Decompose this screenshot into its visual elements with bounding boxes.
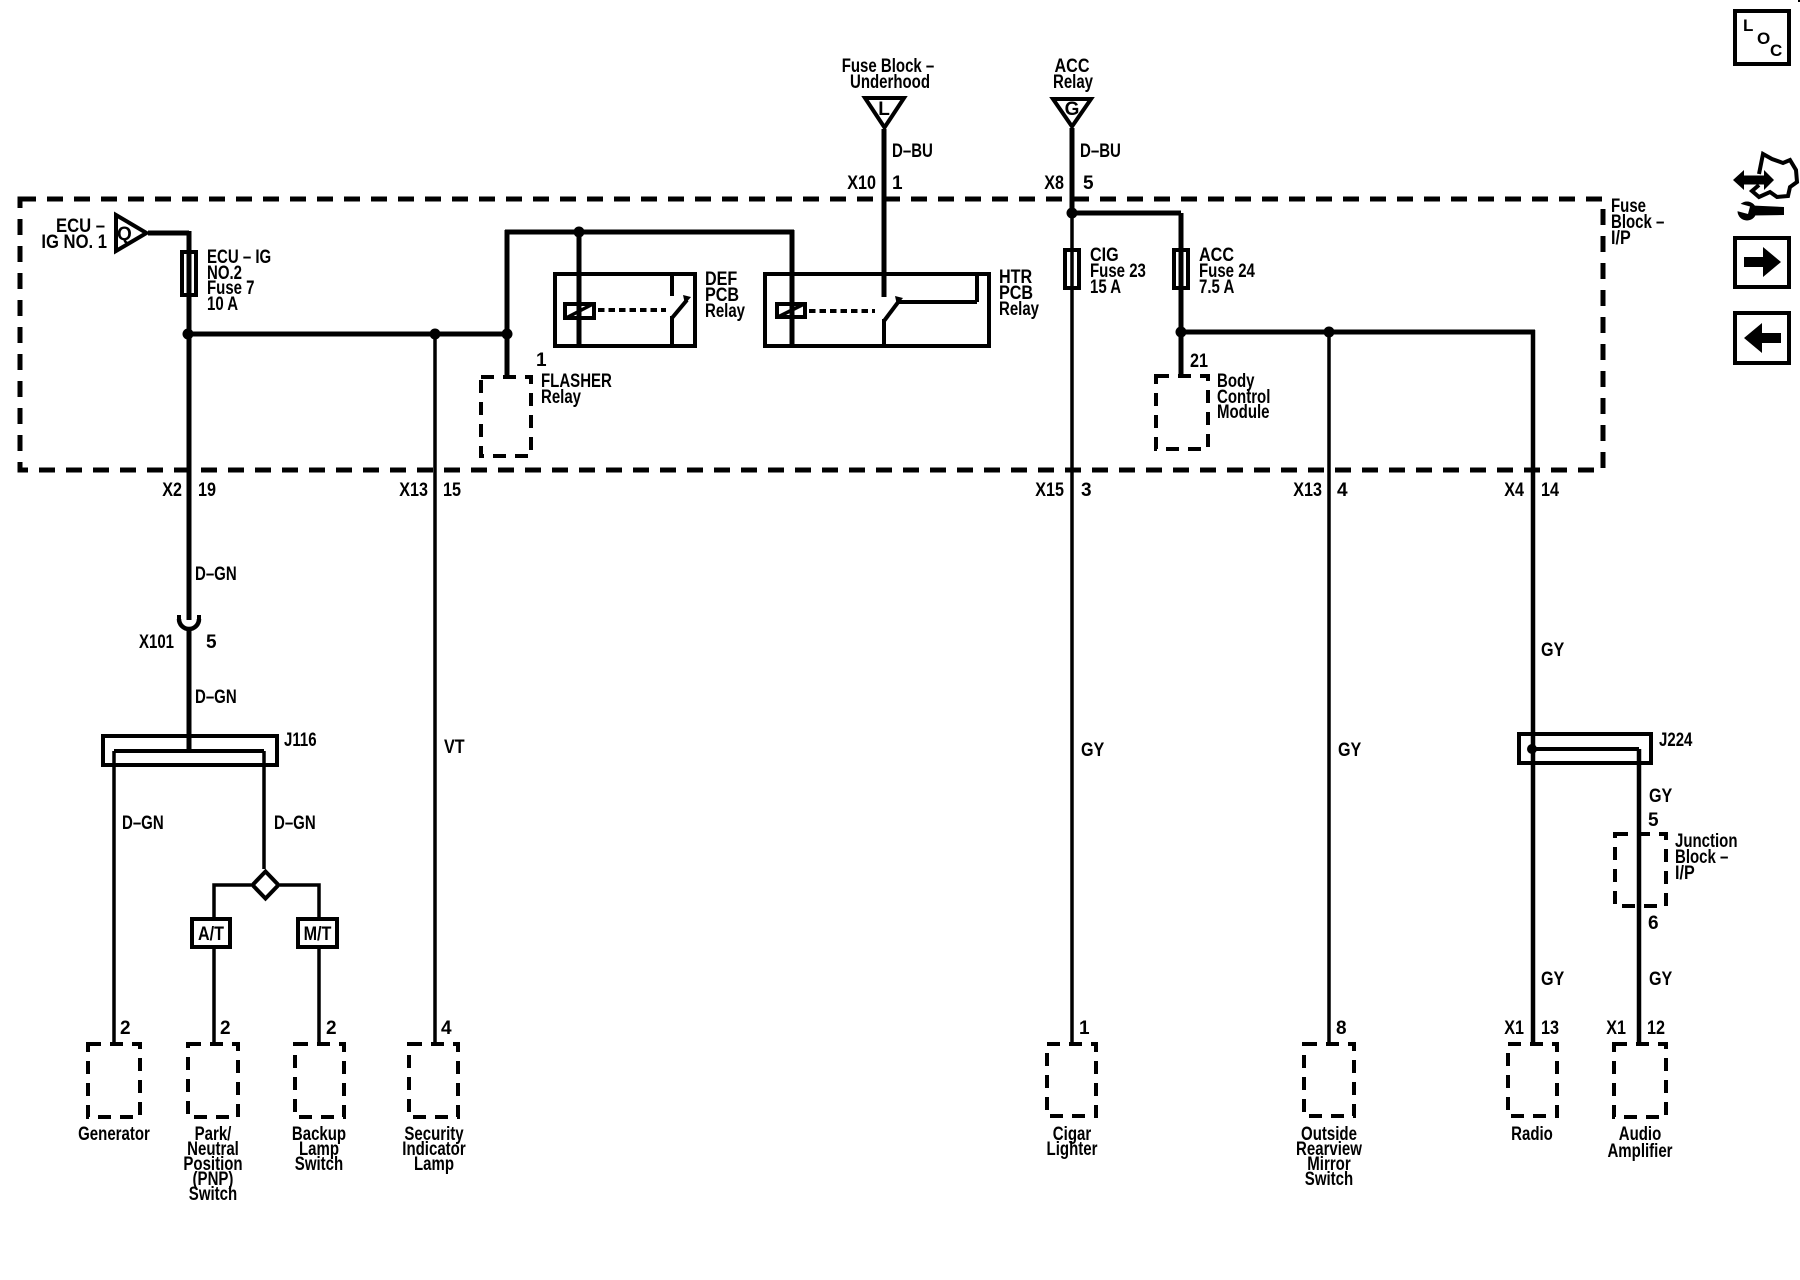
svg-text:1: 1 [536, 350, 547, 371]
svg-text:L: L [878, 99, 890, 120]
svg-text:13: 13 [1541, 1018, 1559, 1039]
wire J224 right drop [1637, 749, 1642, 1046]
svg-text:I/P: I/P [1675, 863, 1695, 884]
svg-text:GY: GY [1649, 786, 1673, 807]
fuse block I/P dashed outline [20, 199, 1603, 470]
svg-text:O: O [1757, 29, 1770, 48]
junction dot B [430, 329, 441, 340]
wire security branch [433, 334, 437, 1046]
svg-text:G: G [1065, 99, 1080, 120]
power triangle L [865, 98, 904, 128]
svg-text:A/T: A/T [198, 924, 224, 945]
wire radio branch vertical [1531, 330, 1536, 1046]
svg-text:Q: Q [117, 224, 132, 245]
svg-text:15: 15 [443, 480, 461, 501]
svg-text:Relay: Relay [541, 387, 581, 408]
HTR coil feed wire [790, 230, 795, 346]
svg-text:1: 1 [1079, 1018, 1090, 1039]
wire diamond to M/T [280, 885, 319, 917]
splice J224 bar [1532, 747, 1639, 751]
svg-text:19: 19 [198, 480, 216, 501]
svg-text:Lamp: Lamp [414, 1154, 454, 1175]
connector Audio dashed box [1614, 1044, 1666, 1117]
wire G triangle down [1070, 128, 1075, 213]
wire mirror branch [1327, 332, 1331, 1046]
junction dot H [1527, 744, 1537, 754]
svg-text:X13: X13 [399, 480, 428, 501]
power triangle ECU-IG NO.1 [116, 215, 147, 251]
wire main D-GN vertical upper [187, 231, 192, 620]
box A/T [192, 919, 230, 947]
svg-text:GY: GY [1541, 969, 1565, 990]
svg-text:Switch: Switch [189, 1184, 237, 1205]
icon LOC box [1735, 11, 1789, 64]
svg-text:10 A: 10 A [207, 294, 238, 315]
svg-text:7.5 A: 7.5 A [1199, 277, 1235, 298]
HTR relay coil [777, 304, 805, 317]
svg-text:Relay: Relay [999, 299, 1039, 320]
svg-text:Generator: Generator [78, 1124, 150, 1145]
svg-text:Amplifier: Amplifier [1607, 1141, 1673, 1162]
svg-text:4: 4 [1337, 480, 1348, 501]
svg-text:L: L [1743, 16, 1753, 35]
svg-text:5: 5 [206, 632, 217, 653]
junction dot C [502, 329, 513, 340]
connector Cigar dashed box [1047, 1044, 1096, 1116]
svg-text:X101: X101 [139, 632, 174, 653]
svg-text:12: 12 [1647, 1018, 1665, 1039]
svg-text:D–GN: D–GN [274, 813, 316, 834]
svg-text:GY: GY [1541, 640, 1565, 661]
wire ACC branch [1179, 213, 1184, 378]
wire CIG branch [1070, 213, 1074, 1046]
svg-text:14: 14 [1541, 480, 1559, 501]
junction dot A [183, 329, 194, 340]
connector Mirror dashed box [1304, 1044, 1354, 1116]
wire diamond to A/T [214, 885, 251, 917]
splice J116 box [103, 736, 277, 765]
junction dot F [1176, 327, 1187, 338]
wire A/T down [212, 947, 216, 1046]
wire horizontal y213 [1072, 211, 1181, 216]
svg-text:D–GN: D–GN [195, 564, 237, 585]
svg-text:D–BU: D–BU [892, 141, 933, 162]
wire L triangle to HTR switch [882, 129, 887, 297]
box M/T [298, 919, 337, 947]
svg-text:X2: X2 [162, 480, 182, 501]
HTR relay box [765, 274, 989, 346]
connector PNP dashed box [188, 1044, 238, 1117]
svg-text:4: 4 [441, 1018, 452, 1039]
icon forward arrow box [1735, 238, 1789, 287]
wire horizontal bus y334 [187, 332, 507, 337]
connector Backup dashed box [295, 1044, 344, 1117]
wire triangle to fuse7 drop [148, 231, 189, 236]
svg-text:D–BU: D–BU [1080, 141, 1121, 162]
svg-text:Switch: Switch [295, 1154, 343, 1175]
junction dot G [1324, 327, 1335, 338]
svg-text:X1: X1 [1606, 1018, 1626, 1039]
svg-text:IG NO. 1: IG NO. 1 [41, 232, 107, 253]
svg-text:GY: GY [1649, 969, 1673, 990]
wire M/T down [317, 947, 321, 1046]
svg-text:X15: X15 [1035, 480, 1064, 501]
svg-text:2: 2 [220, 1018, 231, 1039]
svg-text:D–GN: D–GN [122, 813, 164, 834]
DEF coil feed wire [577, 230, 582, 346]
svg-text:1: 1 [892, 173, 903, 194]
svg-text:X1: X1 [1504, 1018, 1524, 1039]
splice J116 bar [114, 749, 264, 753]
HTR relay actuation dashed link [809, 309, 875, 313]
svg-text:8: 8 [1336, 1018, 1347, 1039]
svg-text:2: 2 [120, 1018, 131, 1039]
junction dot D [574, 227, 585, 238]
splice J224 box [1519, 734, 1651, 763]
svg-text:Module: Module [1217, 402, 1270, 423]
svg-text:15 A: 15 A [1090, 277, 1121, 298]
fuse CIG 23 [1065, 250, 1079, 288]
flasher relay pin wire [505, 334, 510, 379]
svg-text:Lighter: Lighter [1047, 1139, 1098, 1160]
svg-text:5: 5 [1083, 173, 1094, 194]
inline connector X101 [179, 615, 199, 620]
svg-text:VT: VT [444, 737, 465, 758]
svg-text:Switch: Switch [1305, 1169, 1353, 1190]
BCM dashed box [1156, 376, 1208, 449]
svg-text:GY: GY [1081, 740, 1105, 761]
power triangle G [1053, 99, 1091, 127]
svg-text:I/P: I/P [1611, 228, 1631, 249]
svg-text:Radio: Radio [1511, 1124, 1553, 1145]
wire J116 right drop [262, 751, 266, 869]
svg-text:M/T: M/T [304, 924, 332, 945]
wire horizontal bus y332 [1181, 330, 1535, 335]
svg-text:X4: X4 [1504, 480, 1524, 501]
svg-text:J224: J224 [1659, 730, 1693, 751]
selector diamond [253, 872, 279, 899]
connector Generator dashed box [88, 1044, 140, 1117]
flasher relay dashed box [481, 377, 531, 456]
corner mark [1798, 0, 1800, 2]
svg-text:GY: GY [1338, 740, 1362, 761]
wire horizontal bus y232 [505, 230, 794, 235]
svg-text:Relay: Relay [705, 301, 745, 322]
svg-text:X10: X10 [847, 173, 876, 194]
DEF relay box [555, 274, 695, 346]
svg-text:Relay: Relay [1053, 72, 1093, 93]
svg-text:3: 3 [1081, 480, 1092, 501]
junction block IP dashed box [1615, 834, 1666, 906]
wire D-GN below X101 [187, 630, 192, 753]
svg-text:X8: X8 [1044, 173, 1064, 194]
HTR relay output wire [899, 300, 977, 304]
svg-text:X13: X13 [1293, 480, 1322, 501]
svg-text:D–GN: D–GN [195, 687, 237, 708]
fuse F7 ECU-IG NO.2 10A [182, 252, 196, 295]
svg-text:21: 21 [1190, 351, 1208, 372]
connector Security dashed box [409, 1044, 458, 1117]
svg-text:J116: J116 [284, 730, 317, 751]
DEF relay actuation dashed link [598, 308, 666, 312]
wire J116 left drop [112, 751, 116, 1046]
junction dot E [1067, 208, 1078, 219]
icon flow arrows with wrench [1752, 154, 1797, 197]
HTR relay switch blade [884, 301, 899, 321]
fuse ACC 24 [1174, 250, 1188, 288]
wire riser x507 [505, 230, 510, 336]
DEF relay switch [670, 274, 674, 296]
icon back arrow box [1735, 313, 1789, 363]
svg-text:2: 2 [326, 1018, 337, 1039]
connector Radio dashed box [1508, 1044, 1557, 1116]
svg-text:C: C [1770, 41, 1782, 60]
DEF relay coil [565, 304, 594, 318]
svg-text:5: 5 [1648, 810, 1659, 831]
svg-text:6: 6 [1648, 913, 1659, 934]
svg-text:Underhood: Underhood [850, 72, 930, 93]
